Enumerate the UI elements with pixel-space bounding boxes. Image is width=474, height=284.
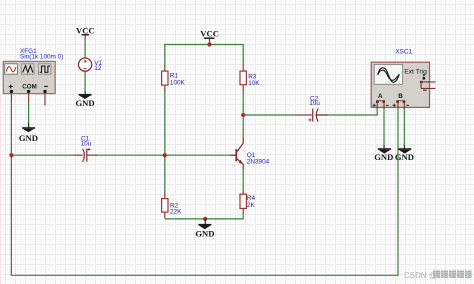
svg-text:10K: 10K	[248, 80, 260, 87]
svg-text:R1: R1	[170, 73, 179, 80]
svg-text:B: B	[398, 93, 403, 100]
svg-text:2N3904: 2N3904	[247, 158, 270, 165]
svg-text:10u: 10u	[81, 141, 92, 148]
svg-text:GND: GND	[19, 133, 38, 143]
svg-text:COM: COM	[22, 84, 36, 91]
svg-text:CSDN @: CSDN @	[404, 271, 437, 280]
svg-text:2K: 2K	[247, 202, 256, 209]
svg-text:GND: GND	[75, 98, 94, 108]
svg-text:12: 12	[94, 65, 102, 72]
svg-text:A: A	[378, 93, 383, 100]
svg-text:22K: 22K	[170, 209, 182, 216]
svg-text:XSC1: XSC1	[395, 49, 412, 56]
svg-text:VCC: VCC	[76, 25, 95, 35]
svg-text:VCC: VCC	[200, 28, 219, 38]
svg-text:GND: GND	[195, 229, 214, 239]
svg-text:Sin(1k 100m 0): Sin(1k 100m 0)	[20, 54, 63, 61]
svg-text:10u: 10u	[309, 100, 320, 107]
svg-text:GND: GND	[374, 152, 393, 162]
svg-text:GND: GND	[395, 152, 414, 162]
svg-text:100K: 100K	[170, 80, 186, 87]
